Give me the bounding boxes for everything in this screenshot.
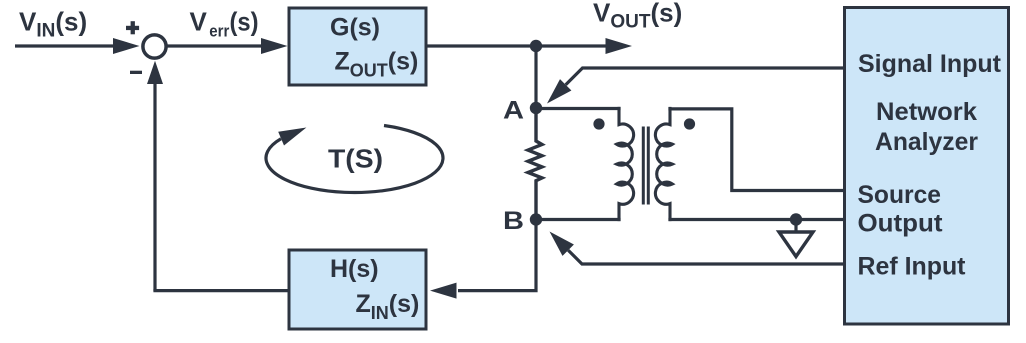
- wire: error signal into G(s): [166, 38, 288, 54]
- node B: [530, 213, 542, 225]
- svg-text:Output: Output: [858, 210, 944, 238]
- junction dot at Vout: [530, 40, 542, 52]
- wire: Vin input into summing junction: [15, 38, 140, 54]
- node A: [530, 102, 542, 114]
- wire: secondary top to Source Output: [668, 109, 845, 191]
- svg-text:V: V: [190, 7, 208, 37]
- wire: Vout arrow: [536, 38, 632, 54]
- summing junction U1: [143, 35, 166, 58]
- phase dot secondary: [684, 118, 695, 129]
- wire: secondary bottom to analyzer Output: [668, 218, 845, 221]
- minus sign: [130, 71, 142, 74]
- phase dot primary: [593, 118, 604, 129]
- block network analyzer: [845, 8, 1009, 325]
- svg-text:G(s): G(s): [330, 13, 380, 41]
- svg-text:Source: Source: [858, 181, 942, 209]
- junction dot at ground: [790, 213, 802, 225]
- wire: Signal Input to node A: [547, 68, 844, 104]
- svg-text:A: A: [503, 97, 524, 125]
- svg-text:Signal Input: Signal Input: [858, 50, 1002, 78]
- svg-text:(s): (s): [230, 7, 259, 37]
- transformer T1 secondary winding: [655, 107, 672, 221]
- transformer T1 primary winding: [617, 107, 634, 221]
- block H(s) Zin(s): [289, 250, 426, 329]
- svg-text:B: B: [503, 207, 524, 235]
- wire: junction down to node A: [534, 46, 537, 108]
- plus sign: [126, 26, 139, 30]
- svg-text:T(S): T(S): [328, 143, 383, 173]
- svg-text:err: err: [209, 21, 229, 40]
- wire: node B to primary bottom: [536, 218, 621, 221]
- wire: B down and into H(s): [430, 220, 536, 299]
- wire: Ref Input to node B: [550, 232, 845, 265]
- transformer core: [643, 127, 648, 205]
- svg-text:Analyzer: Analyzer: [875, 128, 978, 156]
- wire: G(s) output to node: [426, 44, 536, 47]
- svg-text:Ref Input: Ref Input: [858, 252, 967, 280]
- resistor R1 between A and B: [528, 108, 542, 220]
- loop gain label T(S): [266, 126, 443, 193]
- wire: H(s) output to feedback line: [153, 289, 289, 292]
- svg-text:H(s): H(s): [330, 255, 379, 283]
- wire: feedback vertical into summing junction: [147, 61, 163, 291]
- block G(s) Zout(s): [289, 8, 426, 85]
- wire: node A to transformer primary: [536, 107, 621, 110]
- ground: [779, 220, 813, 257]
- svg-text:Network: Network: [876, 98, 977, 126]
